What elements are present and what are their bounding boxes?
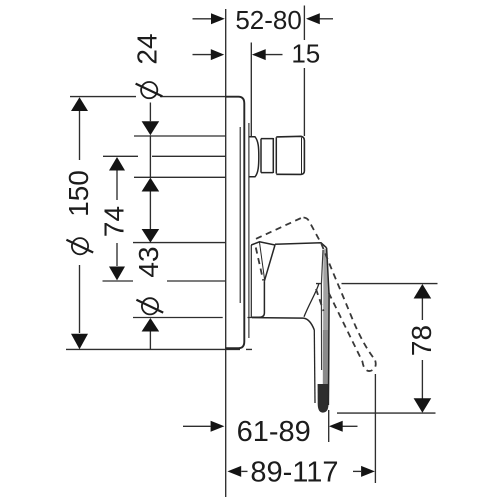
svg-text:150: 150 xyxy=(63,170,94,217)
svg-text:43: 43 xyxy=(133,246,164,277)
svg-text:61-89: 61-89 xyxy=(237,416,311,448)
svg-text:89-117: 89-117 xyxy=(250,456,338,488)
svg-text:78: 78 xyxy=(406,325,437,356)
svg-text:74: 74 xyxy=(99,206,130,237)
svg-text:24: 24 xyxy=(132,33,163,64)
svg-text:15: 15 xyxy=(291,39,320,69)
svg-text:52-80: 52-80 xyxy=(235,5,302,35)
